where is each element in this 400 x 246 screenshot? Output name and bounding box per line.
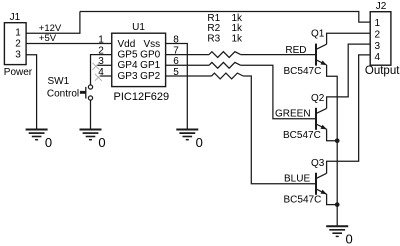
svg-text:2: 2 [15,39,21,50]
ground 0 (U1 Vss) [176,130,198,140]
no-connect cross pin 3 [93,63,100,70]
svg-text:Control: Control [47,89,79,100]
wire Q3 collector to J2 pin 4 [327,55,371,173]
svg-text:BC547C: BC547C [284,195,322,206]
svg-text:GP1: GP1 [140,60,160,71]
resistor R2 [209,62,241,68]
svg-text:J2: J2 [376,1,387,12]
wire Q2 collector to J2 pin 3 [327,44,371,108]
no-connect cross pin 4 [95,74,102,81]
svg-text:1: 1 [375,18,381,29]
wire Q1 collector to J2 pin 2 [327,33,371,44]
svg-text:GP0: GP0 [140,50,160,61]
svg-text:Q2: Q2 [311,93,325,104]
svg-text:R1: R1 [207,13,220,24]
transistor Q3 BC547C [316,173,327,195]
wire R2 to Q2 base [241,65,316,119]
svg-text:4: 4 [375,52,381,63]
svg-text:RED: RED [285,45,306,56]
ground 0 (emitters) [326,226,348,236]
svg-text:J1: J1 [10,12,21,23]
svg-text:2: 2 [98,45,104,56]
ground 0 (SW1) [80,130,102,140]
svg-text:Output: Output [365,65,400,77]
svg-text:GP3: GP3 [118,71,138,82]
wire +12V: J1 pin1 up to top rail [26,12,80,34]
connector J1 [4,23,26,65]
wire rail to ground [336,205,338,227]
svg-text:GREEN: GREEN [275,109,311,120]
svg-text:GP2: GP2 [140,71,160,82]
wire SW1 to ground [90,100,92,129]
svg-text:U1: U1 [132,22,145,33]
svg-text:2: 2 [375,30,381,41]
wire rail Q2 to Q3 [336,141,338,205]
svg-text:0: 0 [346,231,353,246]
junction dot Q3 emitter [335,202,340,207]
svg-text:BC547C: BC547C [283,130,321,141]
svg-text:R2: R2 [207,23,220,34]
IC U1 PIC12F629 [112,33,166,86]
svg-text:3: 3 [15,49,21,60]
svg-text:GP5: GP5 [118,50,138,61]
wire SW1 to U1 pin 2 [91,55,112,85]
transistor Q2 BC547C [316,108,327,130]
svg-text:GP4: GP4 [118,60,138,71]
svg-text:1: 1 [15,27,21,38]
wire Q1 emitter to rail [327,65,338,141]
resistor R3 [212,73,244,79]
wire U1 pin 6 to R2 [166,64,209,66]
svg-text:3: 3 [375,41,381,52]
wire R1 to Q1 base [241,54,316,56]
svg-text:Q3: Q3 [311,158,325,169]
svg-text:1k: 1k [232,13,244,24]
transistor Q1 BC547C [316,44,327,66]
wire top rail to J2 pin 1 [80,12,370,23]
svg-text:1k: 1k [232,34,244,45]
svg-text:Power: Power [4,67,33,78]
svg-text:0: 0 [45,135,52,150]
svg-text:Vss: Vss [144,39,161,50]
wire U1 pin 8 Vss to ground [166,44,188,130]
wire J1 pin3 to ground [26,55,36,130]
wire R3 to Q3 base [243,76,315,184]
junction dot Q2 emitter [335,138,340,143]
wire Q3 emitter to rail [327,194,338,204]
svg-text:Vdd: Vdd [118,39,136,50]
svg-text:1: 1 [98,34,104,45]
wire U1 pin 5 to R3 [166,75,212,77]
connector J2 [370,12,391,65]
wire U1 pin 7 to R1 [166,54,209,56]
wire U1 pin 3 stub (unconnected) [97,64,112,66]
wire Q2 emitter to rail [327,129,338,141]
svg-text:BLUE: BLUE [284,174,310,185]
svg-text:0: 0 [196,135,203,150]
resistor R1 [209,52,241,58]
ground 0 (J1) [26,130,48,140]
svg-text:Q1: Q1 [311,29,325,40]
svg-text:PIC12F629: PIC12F629 [114,91,170,103]
svg-text:+5V: +5V [39,33,57,44]
svg-text:1k: 1k [232,23,244,34]
svg-text:BC547C: BC547C [284,66,322,77]
switch SW1 pushbutton [80,85,93,100]
svg-text:R3: R3 [207,34,220,45]
wire U1 pin 4 stub (unconnected) [100,75,112,77]
wire +5V: J1 pin2 to U1 Vdd pin 1 [26,43,112,45]
svg-text:0: 0 [98,135,105,150]
svg-text:SW1: SW1 [48,76,70,87]
